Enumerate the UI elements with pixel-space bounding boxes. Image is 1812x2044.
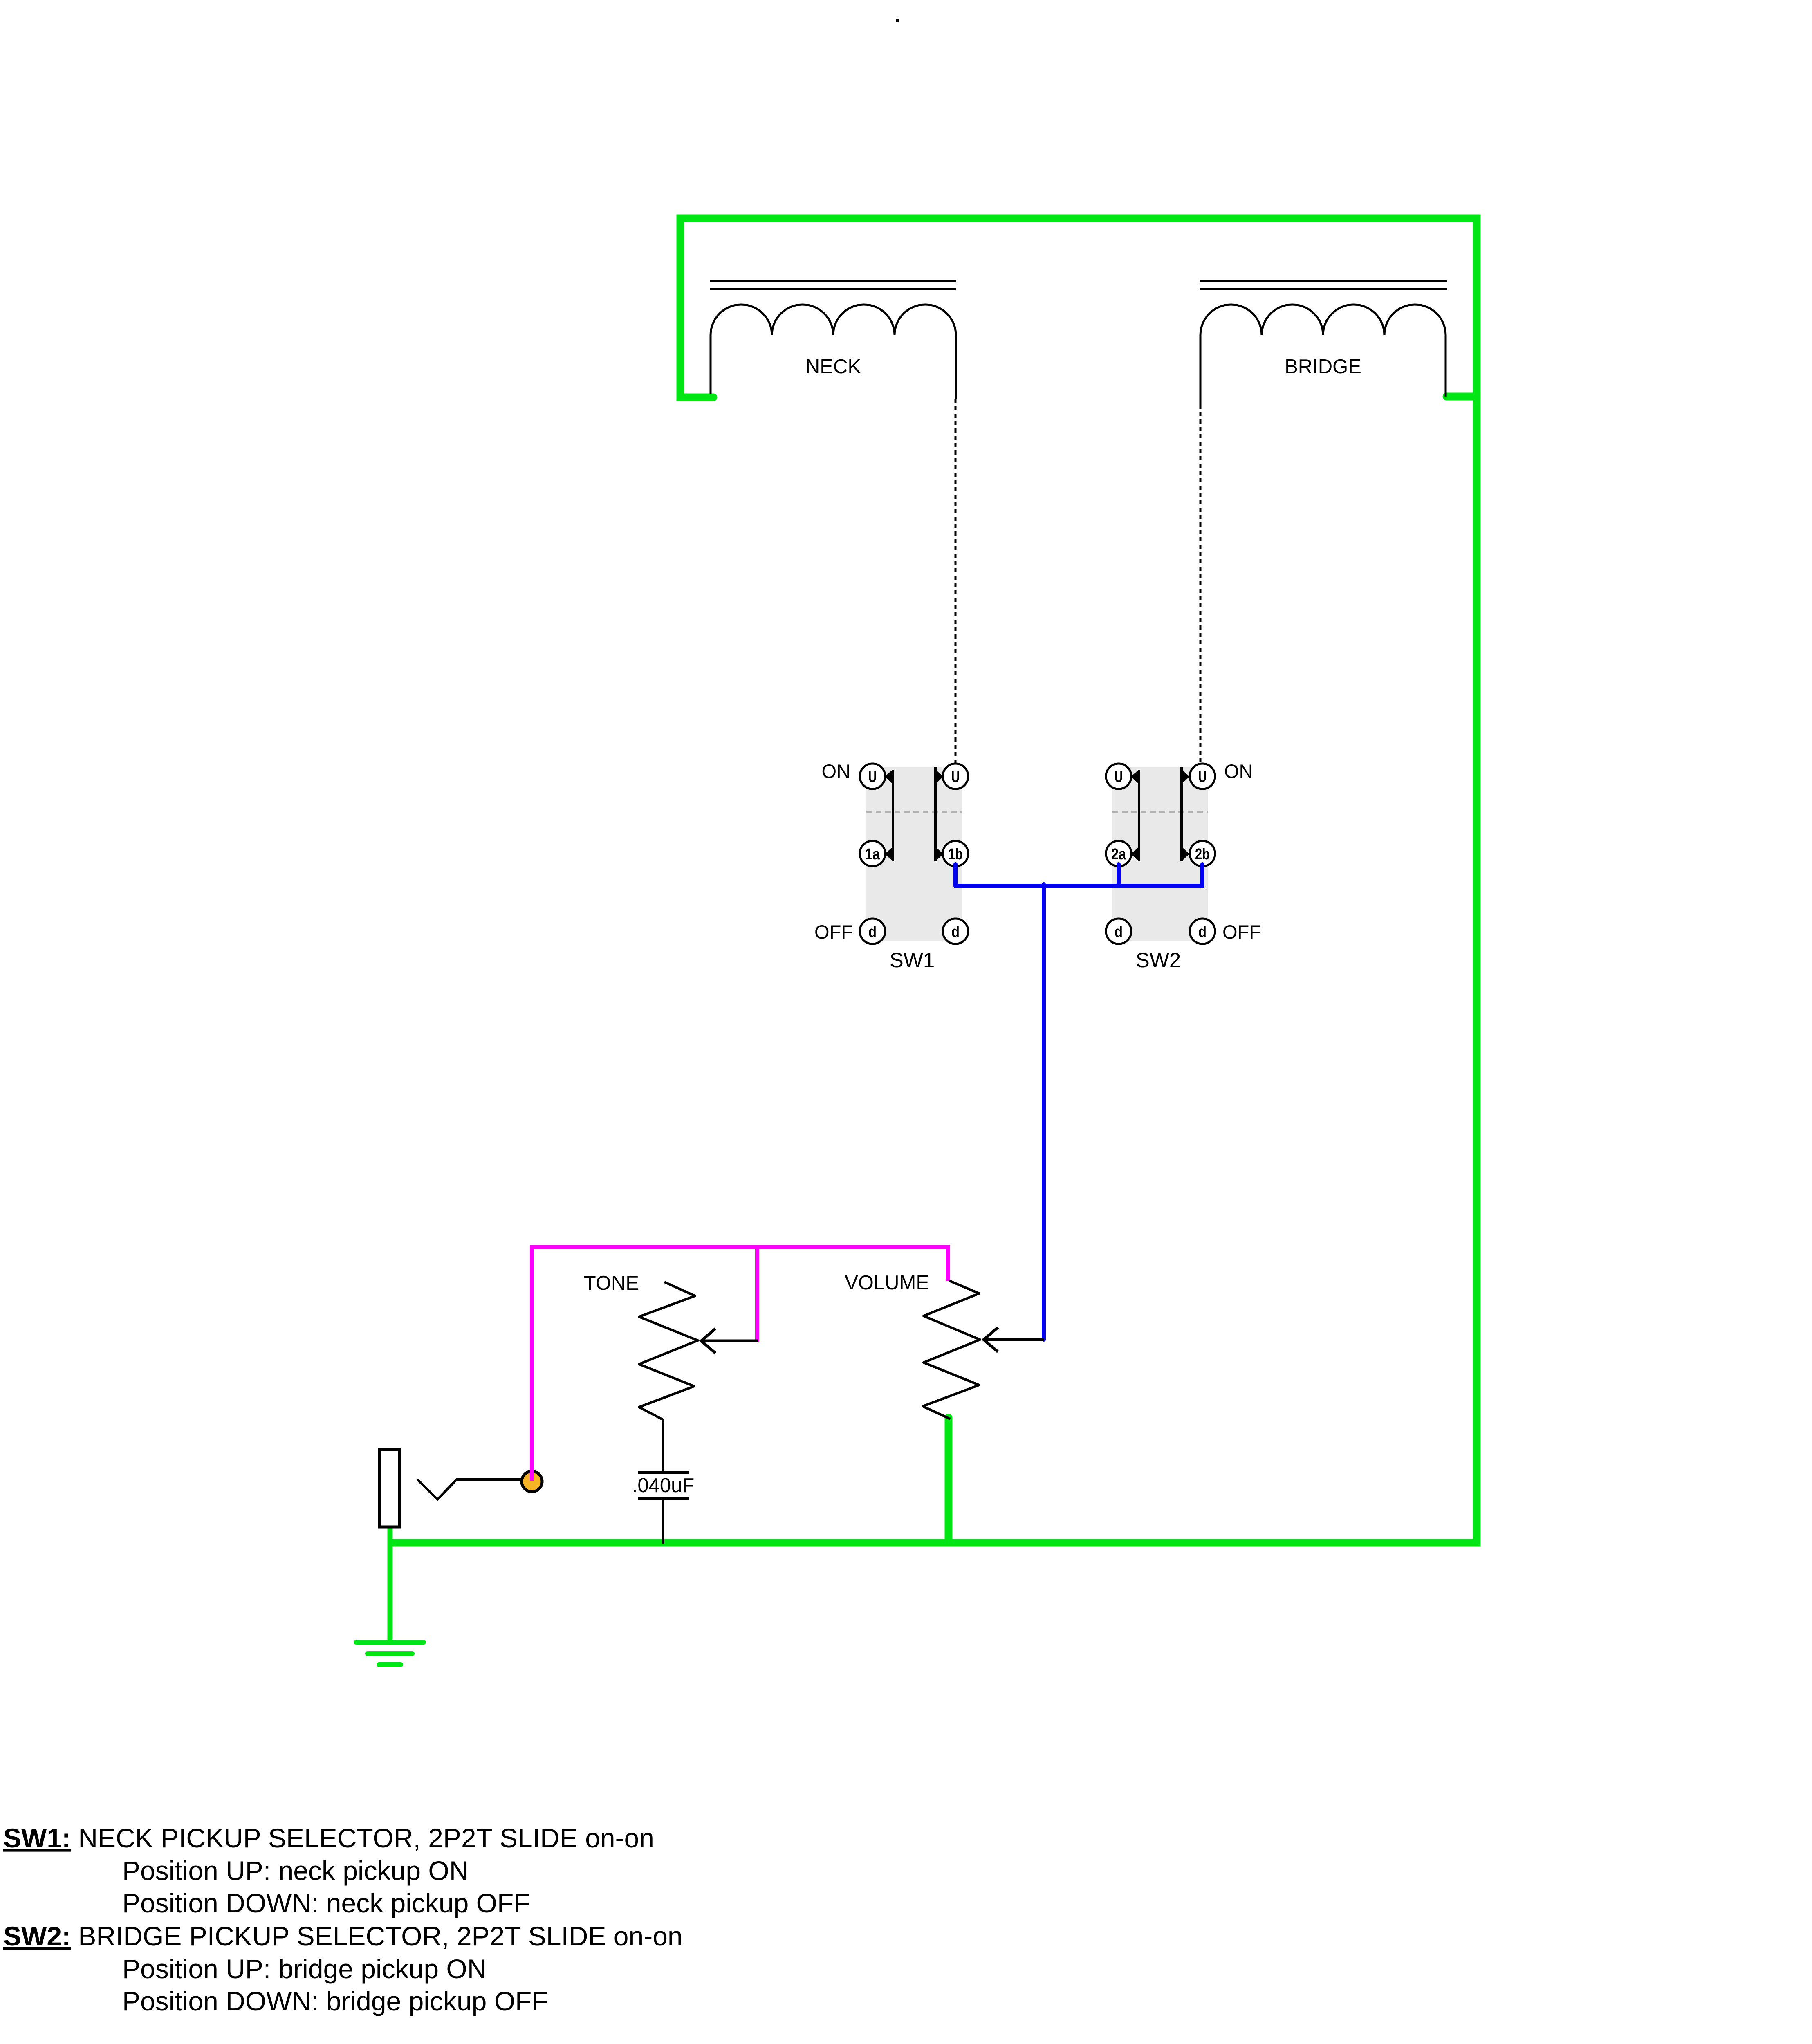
potentiometer VOLUME resistor [923, 1281, 980, 1419]
SWITCH SW1 body [866, 767, 962, 941]
SW2 travel dashed line [1112, 811, 1208, 813]
svg-text:1b: 1b [948, 846, 963, 863]
wire blue 1b stub and bus to 2b [955, 864, 1202, 886]
SW2 pin u left [1106, 764, 1131, 789]
SW1 pole arm left (u to 1a) [885, 770, 893, 861]
wire capacitor to ground bus [662, 1499, 664, 1544]
svg-text:2a: 2a [1111, 846, 1126, 863]
SW1 pin 1b [943, 841, 968, 866]
svg-text:VOLUME: VOLUME [845, 1272, 929, 1294]
wire green VOLUME cold leg to ground bus [945, 1418, 953, 1543]
SW1 pin u left [860, 764, 885, 789]
SW1 pin d left [860, 919, 885, 944]
svg-text:.040uF: .040uF [632, 1475, 695, 1497]
VOLUME wiper arrow [984, 1327, 1044, 1352]
svg-text:SW1: NECK PICKUP SELECTOR, 2P2: SW1: NECK PICKUP SELECTOR, 2P2T SLIDE on… [3, 1823, 654, 1853]
jack hot terminal node (under magenta) [522, 1471, 542, 1492]
wire blue drop to VOLUME wiper [1042, 884, 1046, 1340]
jack J1 output body [379, 1450, 399, 1527]
pickup NECK coil [711, 305, 956, 399]
svg-text:1a: 1a [865, 846, 880, 863]
SW2 pin d right [1190, 919, 1215, 944]
svg-text:d: d [1198, 923, 1207, 941]
svg-text:ON: ON [822, 760, 851, 782]
stray dot (period) at top [896, 19, 899, 22]
SW2 pin u right [1190, 764, 1215, 789]
svg-text:SW2: BRIDGE PICKUP SELECTOR, 2: SW2: BRIDGE PICKUP SELECTOR, 2P2T SLIDE … [3, 1921, 683, 1951]
capacitor C1 .040uF [638, 1472, 689, 1499]
wire dashed BRIDGE hot to SW2 [1200, 405, 1202, 764]
pickup NECK core double bar [710, 281, 956, 289]
wire green stub to NECK coil start [680, 394, 713, 401]
wire dashed NECK hot to SW1 [955, 399, 957, 764]
svg-text:U: U [1198, 769, 1207, 786]
svg-text:SW2: SW2 [1136, 948, 1181, 972]
svg-text:U: U [868, 769, 877, 786]
svg-text:d: d [868, 923, 877, 941]
svg-text:NECK: NECK [805, 356, 861, 378]
svg-text:OFF: OFF [814, 921, 853, 943]
svg-text:ON: ON [1224, 760, 1253, 782]
svg-text:Position UP: bridge pickup ON: Position UP: bridge pickup ON [122, 1954, 487, 1984]
wire magenta jack tip up and across [532, 1247, 948, 1481]
SW2 pin d left [1106, 919, 1131, 944]
potentiometer TONE resistor [639, 1282, 698, 1472]
wire green jack sleeve to ground bus and ground symbol [388, 1525, 393, 1642]
ground symbol [356, 1642, 424, 1665]
wire green stub to BRIDGE coil finish [1446, 393, 1477, 401]
SW1 pin 1a [860, 841, 885, 866]
SW2 pin 2b [1190, 841, 1215, 866]
svg-text:Position UP: neck pickup ON: Position UP: neck pickup ON [122, 1856, 469, 1886]
SW2 pole arm left (u to 2a) [1131, 770, 1139, 861]
svg-text:Position DOWN: bridge pickup O: Position DOWN: bridge pickup OFF [122, 1986, 548, 2016]
SWITCH SW2 body [1112, 767, 1208, 941]
NOTES TEXT BLOCK [3, 1823, 683, 2016]
wire magenta TONE wiper tap [755, 1247, 759, 1342]
SW2 pin 2a [1106, 841, 1131, 866]
wire green top horizontal [393, 218, 1477, 1543]
svg-text:TONE: TONE [584, 1272, 639, 1294]
TONE wiper arrow [701, 1329, 758, 1353]
svg-text:2b: 2b [1195, 846, 1210, 863]
SW1 travel dashed line [866, 811, 962, 813]
SW1 pole arm right (u to 1b) [935, 767, 943, 861]
svg-text:SW1: SW1 [890, 948, 935, 972]
svg-text:U: U [1115, 769, 1123, 786]
pickup BRIDGE coil [1200, 305, 1446, 405]
svg-text:OFF: OFF [1222, 921, 1261, 943]
jack tip contact [417, 1479, 522, 1499]
pickup BRIDGE core double bar [1200, 281, 1447, 289]
SW1 pin d right [943, 919, 968, 944]
SW2 pole arm right (u to 2b) [1182, 767, 1189, 861]
svg-text:d: d [951, 923, 960, 941]
svg-text:d: d [1115, 923, 1123, 941]
svg-text:U: U [951, 769, 960, 786]
svg-text:Position DOWN: neck pickup OFF: Position DOWN: neck pickup OFF [122, 1888, 530, 1918]
svg-text:BRIDGE: BRIDGE [1285, 356, 1361, 378]
wire blue 2a stub [1117, 864, 1121, 886]
SW1 pin u right [943, 764, 968, 789]
